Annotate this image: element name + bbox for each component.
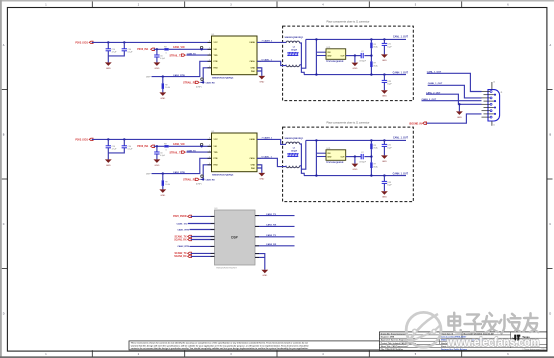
svg-text:SN6501QDBVRQ1: SN6501QDBVRQ1 bbox=[285, 37, 305, 39]
svg-text:SCAN1_TX: SCAN1_TX bbox=[175, 236, 187, 239]
svg-text:SCAN1_RX: SCAN1_RX bbox=[174, 239, 187, 242]
svg-text:CANL_1_OUT: CANL_1_OUT bbox=[427, 70, 442, 73]
svg-text:CAN1 TX: CAN1 TX bbox=[187, 52, 197, 55]
svg-text:CAN1_RX: CAN1_RX bbox=[266, 224, 277, 227]
svg-text:CANH: CANH bbox=[249, 41, 255, 44]
svg-text:15pF: 15pF bbox=[387, 84, 392, 86]
svg-text:NLA: NLA bbox=[374, 46, 379, 49]
svg-text:These instruments shown for co: These instruments shown for contexts do … bbox=[131, 342, 308, 345]
svg-text:contexts do not warrant that t: contexts do not warrant that the design … bbox=[131, 347, 309, 350]
svg-text:VCC: VCC bbox=[214, 42, 219, 44]
svg-text:CANH_2_OUT: CANH_2_OUT bbox=[422, 98, 437, 101]
svg-text:www.elecfans.com: www.elecfans.com bbox=[446, 335, 539, 349]
svg-text:C: C bbox=[3, 223, 5, 226]
svg-text:CAN1_VIO: CAN1_VIO bbox=[173, 46, 185, 49]
svg-text:CAN2_RX: CAN2_RX bbox=[266, 243, 277, 246]
svg-text:GND: GND bbox=[327, 55, 332, 57]
svg-text:SCAN2_TX: SCAN2_TX bbox=[175, 252, 187, 255]
svg-text:CANL_1_OUT: CANL_1_OUT bbox=[393, 36, 409, 39]
svg-text:TXD: TXD bbox=[214, 55, 219, 57]
svg-text:DNP: DNP bbox=[146, 77, 151, 79]
svg-text:15pF: 15pF bbox=[387, 46, 392, 48]
svg-text:4.7µF: 4.7µF bbox=[112, 52, 118, 54]
svg-text:10: 10 bbox=[493, 82, 495, 84]
svg-text:CAN2_TX: CAN2_TX bbox=[266, 234, 277, 237]
svg-text:warrant that this design will: warrant that this design will meet the s… bbox=[131, 344, 310, 347]
svg-text:DSP: DSP bbox=[231, 235, 238, 239]
svg-text:TMS320F28379DZWT: TMS320F28379DZWT bbox=[216, 268, 238, 270]
svg-text:FFB: FFB bbox=[214, 61, 218, 63]
svg-text:CAN1_RTB: CAN1_RTB bbox=[173, 74, 185, 77]
svg-text:STRAIL_RX: STRAIL_RX bbox=[183, 82, 196, 85]
svg-text:C: C bbox=[549, 223, 551, 226]
svg-text:CANL: CANL bbox=[249, 60, 255, 63]
svg-text:P3V3_ISO1: P3V3_ISO1 bbox=[75, 41, 88, 44]
svg-text:CAN1_RTB: CAN1_RTB bbox=[177, 228, 189, 231]
svg-text:11: 11 bbox=[493, 124, 495, 126]
svg-text:Drawn By: Texas Instruments: Drawn By: Texas Instruments bbox=[381, 332, 407, 335]
svg-text:CAN1_VIO: CAN1_VIO bbox=[177, 222, 188, 225]
svg-text:CAN1_TX: CAN1_TX bbox=[266, 213, 277, 216]
svg-text:RXD: RXD bbox=[214, 68, 219, 70]
svg-text:0.1µF: 0.1µF bbox=[160, 58, 166, 60]
svg-text:CANH_1_OUT: CANH_1_OUT bbox=[393, 71, 409, 74]
svg-text:Engineer: DRB: Engineer: DRB bbox=[381, 337, 395, 339]
svg-text:CAN1 RD: CAN1 RD bbox=[206, 81, 216, 84]
svg-text:File: TIDA-01057.SchDoc: File: TIDA-01057.SchDoc bbox=[381, 348, 403, 351]
svg-text:D: D bbox=[3, 312, 5, 315]
svg-text:CANL_2_OUT: CANL_2_OUT bbox=[426, 91, 441, 94]
svg-text:GND: GND bbox=[251, 68, 256, 70]
svg-text:100µH: 100µH bbox=[291, 49, 298, 51]
svg-text:(DNP): (DNP) bbox=[196, 86, 202, 88]
svg-text:P3V3_IN1: P3V3_IN1 bbox=[137, 48, 149, 51]
svg-text:PAD: PAD bbox=[251, 70, 256, 73]
svg-text:ISOGND_IN: ISOGND_IN bbox=[409, 123, 422, 125]
svg-text:D: D bbox=[549, 312, 551, 315]
svg-text:SN65HVD257QDRQ1: SN65HVD257QDRQ1 bbox=[212, 77, 234, 79]
svg-text:STRAIL_TX: STRAIL_TX bbox=[169, 54, 182, 57]
svg-text:NLA: NLA bbox=[374, 64, 379, 67]
svg-text:Place components close to J1 c: Place components close to J1 connector bbox=[327, 21, 370, 24]
svg-text:CANH_1_OUT: CANH_1_OUT bbox=[428, 82, 443, 85]
svg-text:SCAN2_RX: SCAN2_RX bbox=[174, 255, 187, 258]
svg-text:Sheet Title: CAN Transceivers: Sheet Title: CAN Transceivers bbox=[381, 345, 408, 348]
svg-text:TPS76350QDBVR: TPS76350QDBVR bbox=[326, 61, 344, 63]
svg-text:10.0k: 10.0k bbox=[165, 87, 170, 89]
svg-text:P3V3_DVDD: P3V3_DVDD bbox=[173, 216, 187, 218]
svg-text:VIO: VIO bbox=[214, 49, 218, 51]
svg-text:Approved: Systems Engineering: Approved: Systems Engineering bbox=[381, 339, 411, 342]
svg-text:CAN2_RTB: CAN2_RTB bbox=[177, 245, 189, 248]
svg-text:0.1µF: 0.1µF bbox=[128, 52, 134, 54]
svg-text:4700pF: 4700pF bbox=[359, 60, 367, 62]
